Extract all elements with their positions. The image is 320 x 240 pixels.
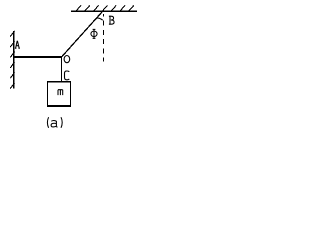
vertical string OC to mass xyxy=(61,56,63,81)
node O label xyxy=(64,56,70,63)
wall A (vertical support line) xyxy=(13,31,15,89)
dashed vertical reference line from B xyxy=(103,14,105,62)
ceiling B (slanted-support top line) xyxy=(71,10,137,12)
horizontal string OA xyxy=(14,56,62,58)
wall A hatching xyxy=(10,31,14,89)
label A xyxy=(15,41,20,48)
mass block xyxy=(47,82,70,107)
ceiling hatching xyxy=(76,5,134,11)
mass block bottom edge (thicker) xyxy=(47,105,71,107)
label phi xyxy=(91,29,97,38)
slanted string OB xyxy=(62,11,103,57)
label B xyxy=(109,16,114,24)
mass label m xyxy=(58,90,63,95)
caption (a) xyxy=(47,117,62,128)
node C label xyxy=(65,71,70,80)
angle arc phi xyxy=(97,18,103,20)
